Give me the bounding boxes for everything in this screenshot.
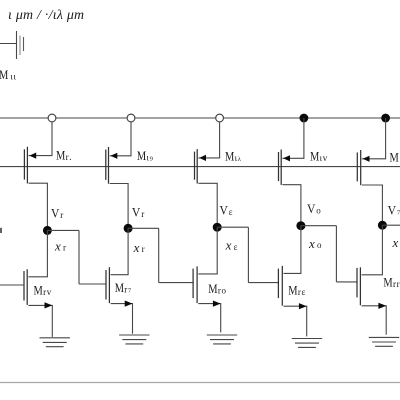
svg-text:M: M: [310, 149, 319, 163]
transistor M25 (NMOS): [193, 266, 221, 306]
svg-text:x: x: [54, 238, 61, 253]
transistor M18 (PMOS): [195, 149, 218, 183]
svg-text:M: M: [208, 282, 217, 296]
svg-text:x: x: [225, 238, 232, 253]
wire: supply to M17: [282, 118, 304, 158]
label M26: [115, 281, 132, 295]
svg-text:x: x: [133, 240, 140, 255]
svg-text:M: M: [225, 149, 234, 163]
svg-text:ε: ε: [302, 287, 306, 297]
transistor M23 (NMOS): [357, 267, 387, 309]
label M27: [34, 284, 52, 298]
label M16: [390, 151, 399, 165]
svg-text:r: r: [66, 152, 69, 162]
svg-text:V: V: [220, 204, 229, 218]
svg-text:M: M: [115, 281, 124, 295]
wire: M25 source to ground: [220, 304, 222, 333]
label V6: [388, 203, 400, 217]
wire: M27 source to ground: [51, 305, 53, 337]
svg-text:r: r: [43, 287, 46, 297]
svg-text:r: r: [63, 243, 66, 253]
label M24: [288, 283, 305, 297]
svg-text:V: V: [388, 203, 397, 217]
svg-text:9: 9: [150, 156, 154, 163]
svg-text:M: M: [288, 283, 297, 297]
svg-text:ε: ε: [234, 242, 238, 252]
label x3: [133, 240, 145, 255]
wire: M26 source to ground: [132, 304, 134, 334]
svg-text:M: M: [56, 149, 65, 163]
wire: M20 source to node V2: [46, 183, 48, 230]
wire: node V3 to M26 drain: [111, 228, 129, 274]
svg-text:M: M: [383, 276, 392, 290]
label M23: [383, 276, 399, 290]
ground (stage 1): [40, 338, 70, 347]
node supply tap 5: [381, 114, 390, 123]
node V5 (junction dot): [296, 221, 305, 230]
label M19: [137, 149, 154, 163]
svg-text:v: v: [47, 287, 52, 297]
svg-text:V: V: [51, 207, 60, 221]
svg-text:V: V: [132, 206, 141, 220]
wire: node V5 to M24 drain: [284, 226, 302, 274]
wire: gate feed into M27 from left edge: [0, 284, 25, 286]
node V4 (junction dot): [213, 223, 222, 232]
wire: node V5 to next stage gate: [301, 226, 358, 282]
node V6 (junction dot): [378, 221, 387, 230]
label M25: [208, 282, 226, 296]
svg-text:r: r: [60, 210, 63, 220]
node supply tap 2: [127, 114, 135, 122]
svg-text:r: r: [142, 244, 145, 254]
node supply tap 1: [48, 114, 56, 122]
wire: M18 source to node V4: [216, 183, 218, 227]
svg-text:M: M: [34, 284, 43, 298]
node supply tap 4: [300, 114, 309, 123]
svg-text:V: V: [307, 202, 316, 216]
wire: node V6 to M23 drain: [362, 225, 383, 275]
transistor M19 (PMOS): [106, 147, 129, 184]
wire: M16 source to node V6: [381, 185, 383, 225]
label V5: [307, 202, 321, 216]
transistor M27 (NMOS): [24, 269, 53, 308]
wire: supply to M19: [110, 122, 132, 156]
wire: node V4 to next stage gate: [217, 227, 279, 282]
wire: node V3 to next stage gate: [128, 228, 194, 282]
label x2: [54, 238, 66, 253]
transistor M21 (clipped fragment): [0, 31, 24, 59]
label x4: [225, 238, 238, 253]
label M21: [0, 68, 17, 82]
svg-text:x: x: [392, 235, 399, 250]
wire: node V2 to M27 drain: [28, 230, 48, 276]
label W/L = 1um/0.18um: [8, 8, 84, 23]
svg-text:ι μm / ·/ιλ μm: ι μm / ·/ιλ μm: [8, 8, 84, 23]
label M20: [56, 149, 71, 163]
transistor M16 (PMOS): [357, 150, 383, 185]
label M18: [225, 149, 242, 163]
svg-text:M: M: [137, 149, 146, 163]
ground (stage 2): [119, 335, 149, 344]
svg-text:.: .: [69, 152, 71, 162]
wire: node V6 to next stage gate: [382, 224, 400, 226]
svg-text:M: M: [0, 68, 8, 82]
svg-text:o: o: [222, 286, 227, 296]
svg-text:7: 7: [128, 288, 132, 295]
svg-text:r: r: [124, 285, 127, 295]
wire: clipped V1 feed at left edge: [0, 228, 2, 233]
wire: PMOS gate bus: [0, 166, 400, 168]
ground (stage 3): [207, 335, 237, 344]
wire: node V4 to M25 drain: [198, 227, 217, 274]
wire: node V2 to next stage gate: [47, 230, 106, 284]
page rule (bottom separator line): [0, 382, 400, 384]
wire: supply to M16: [362, 118, 386, 159]
wire: M19 source to node V3: [127, 184, 129, 229]
node V2 (junction dot): [43, 226, 52, 235]
label V2: [51, 207, 63, 221]
ground (stage 4): [292, 339, 322, 348]
node supply tap 3: [216, 114, 224, 122]
node V3 (junction dot): [124, 224, 133, 233]
svg-text:r: r: [218, 286, 221, 296]
wire: M17 source to node V5: [300, 185, 302, 226]
svg-text:r: r: [298, 287, 301, 297]
transistor M17 (PMOS): [279, 150, 302, 185]
svg-text:r: r: [393, 279, 396, 289]
label x5: [308, 236, 322, 251]
svg-text:r: r: [397, 279, 400, 289]
svg-text:o: o: [316, 205, 321, 215]
ground (stage 5): [369, 337, 399, 346]
svg-text:r: r: [141, 209, 144, 219]
svg-text:v: v: [323, 153, 328, 163]
transistor M26 (NMOS): [106, 267, 133, 307]
transistor M24 (NMOS): [278, 266, 307, 309]
svg-text:ε: ε: [229, 207, 233, 217]
wire: supply to M18: [198, 122, 220, 158]
label x6: [392, 235, 399, 250]
wire: M23 source to ground: [385, 306, 387, 335]
label V3: [132, 206, 144, 220]
label M17: [310, 149, 328, 163]
svg-text:M: M: [390, 151, 399, 165]
svg-text:o: o: [317, 240, 322, 250]
wire: M24 source to ground: [306, 306, 308, 336]
wire: supply to M20: [29, 122, 53, 156]
svg-text:λ: λ: [238, 156, 242, 163]
wire: top supply rail: [0, 117, 400, 119]
svg-text:x: x: [308, 236, 315, 251]
transistor M20 (PMOS): [24, 147, 48, 184]
svg-text:ι: ι: [14, 71, 17, 81]
label V4: [220, 204, 233, 218]
